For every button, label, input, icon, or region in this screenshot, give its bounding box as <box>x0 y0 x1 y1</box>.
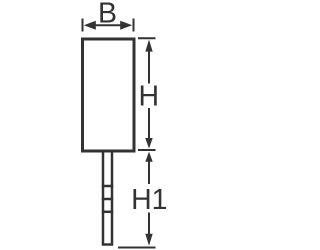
svg-text:H: H <box>139 81 160 113</box>
svg-text:H1: H1 <box>131 184 167 216</box>
